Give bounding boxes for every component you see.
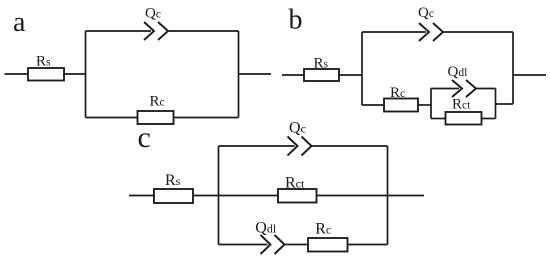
- svg-text:Rc: Rc: [315, 221, 331, 238]
- wire right vertical of circuit a parallel block: [238, 31, 240, 118]
- svg-text:Rs: Rs: [314, 56, 329, 72]
- svg-text:Rs: Rs: [36, 54, 51, 70]
- resistor R6 (Rs of circuit c): [154, 189, 193, 203]
- CPE Q2 (Qc of circuit b): [419, 23, 443, 41]
- svg-text:Rc: Rc: [150, 94, 165, 110]
- CPE Q3 (Qdl of circuit b): [452, 80, 476, 97]
- resistor R3 (Rs of circuit b): [304, 69, 339, 81]
- CPE Q5 (Qdl of circuit c): [261, 235, 285, 254]
- svg-text:Qdl: Qdl: [448, 64, 468, 80]
- CPE Q4 (Qc of circuit c): [288, 137, 312, 156]
- wire top branch right segment (circuit c): [312, 145, 388, 147]
- wire sub-block top branch right segment (circuit b): [476, 88, 496, 90]
- wire Rs to left node of circuit b: [339, 74, 362, 76]
- wire right lead of circuit b: [513, 74, 546, 76]
- wire left lead of circuit b: [282, 74, 304, 76]
- wire bottom branch right segment (circuit a): [174, 117, 239, 119]
- svg-text:Qdl: Qdl: [255, 219, 277, 236]
- wire Rs to left node of circuit a: [64, 73, 86, 75]
- wire right lead of circuit a: [239, 73, 272, 75]
- wire top branch left segment (circuit a): [86, 30, 152, 32]
- resistor R1 (Rs of circuit a): [28, 68, 64, 81]
- wire left vertical of circuit a parallel block: [85, 31, 87, 118]
- wire left lead of circuit c: [129, 195, 154, 197]
- wire left vertical of Qdl/Rct sub-block (circuit b): [430, 89, 432, 119]
- resistor R5 (Rct of circuit b): [446, 112, 482, 125]
- wire Rs to left node (circuit c): [193, 195, 219, 197]
- wire right vertical of Qdl/Rct sub-block (circuit b): [495, 89, 497, 119]
- wire left lead of circuit a: [5, 73, 29, 75]
- svg-text:Rct: Rct: [452, 97, 471, 113]
- wire top branch left segment (circuit b): [362, 31, 426, 33]
- resistor R8 (Rc of circuit c): [308, 238, 348, 252]
- wire bottom branch left segment (circuit a): [86, 117, 138, 119]
- svg-text:Qc: Qc: [145, 5, 161, 21]
- resistor R2 (Rc of circuit a): [138, 111, 174, 124]
- wire right vertical of circuit c parallel block: [387, 146, 389, 245]
- wire right lead of circuit c: [388, 195, 425, 197]
- CPE Q1 (Qc of circuit a): [144, 22, 168, 40]
- wire sub-block to right node (circuit b): [496, 103, 514, 105]
- wire Qdl to Rc (circuit c): [285, 244, 309, 246]
- wire left vertical of circuit c parallel block: [218, 146, 220, 245]
- svg-text:Qc: Qc: [418, 5, 434, 21]
- wire Rc to sub-block (circuit b): [418, 104, 431, 106]
- wire bottom branch right segment (circuit c): [348, 244, 388, 246]
- wire bottom branch left segment (circuit c): [219, 244, 268, 246]
- resistor R7 (Rct of circuit c): [278, 189, 317, 203]
- svg-text:Rct: Rct: [285, 174, 305, 191]
- wire left vertical of circuit b parallel block: [361, 32, 363, 105]
- wire sub-block top branch left segment (circuit b): [431, 88, 459, 90]
- wire right vertical of circuit b parallel block: [512, 32, 514, 104]
- svg-text:b: b: [289, 5, 303, 36]
- svg-text:Rs: Rs: [165, 172, 181, 189]
- wire top branch right segment (circuit b): [443, 31, 513, 33]
- wire bottom branch to Rc (circuit b): [362, 104, 384, 106]
- wire top branch right segment (circuit a): [168, 30, 239, 32]
- svg-text:Qc: Qc: [289, 119, 306, 136]
- wire middle branch right segment (circuit c): [317, 195, 388, 197]
- svg-text:c: c: [138, 121, 151, 154]
- wire top branch left segment (circuit c): [219, 145, 295, 147]
- svg-text:a: a: [13, 7, 26, 38]
- wire sub-block bottom branch right segment (circuit b): [482, 118, 496, 120]
- svg-text:Rc: Rc: [390, 85, 405, 101]
- wire middle branch left segment (circuit c): [219, 195, 279, 197]
- wire sub-block bottom branch left segment (circuit b): [431, 118, 446, 120]
- resistor R4 (Rc of circuit b): [384, 99, 418, 112]
